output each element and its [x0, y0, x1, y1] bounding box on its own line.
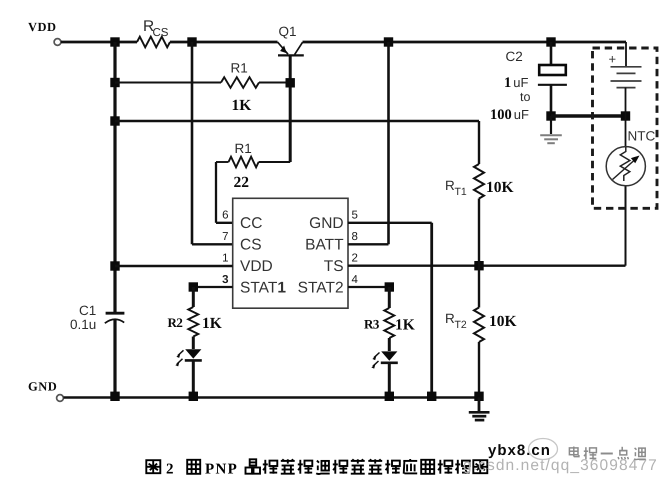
- svg-text:1: 1: [222, 253, 228, 265]
- svg-text:R: R: [445, 178, 455, 193]
- junction rail at C1: [110, 392, 119, 401]
- svg-text:VDD: VDD: [240, 258, 273, 275]
- junction rail at RT2: [474, 392, 483, 401]
- caption: [146, 459, 487, 478]
- svg-text:TS: TS: [324, 258, 344, 275]
- svg-text:PNP: PNP: [205, 462, 238, 478]
- svg-text:T1: T1: [455, 186, 467, 198]
- resistor RT2: [474, 308, 484, 343]
- svg-text:5: 5: [352, 210, 358, 222]
- svg-text:10K: 10K: [486, 179, 514, 196]
- junction TS at RT divider: [474, 261, 483, 270]
- junction C2 to battery link: [546, 111, 555, 120]
- junction on VDD rail at C2: [546, 37, 555, 46]
- svg-text:CS: CS: [240, 237, 262, 254]
- junction RT1 feed tap: [110, 116, 119, 125]
- wire LED2 to ground rail: [388, 363, 391, 398]
- junction STAT1 elbow: [189, 282, 198, 291]
- wire C2 bottom: [550, 85, 553, 116]
- svg-text:8: 8: [352, 231, 358, 243]
- svg-text:g.csdn.net/qq_36098477: g.csdn.net/qq_36098477: [463, 457, 658, 474]
- svg-text:ybx8.cn: ybx8.cn: [488, 442, 551, 459]
- svg-text:4: 4: [352, 274, 359, 286]
- svg-text:+: +: [609, 52, 617, 67]
- wire R2 to LED1: [192, 337, 195, 350]
- svg-text:Q1: Q1: [279, 24, 297, 39]
- junction battery minus: [621, 111, 630, 120]
- wire TS pin 2: [348, 265, 626, 267]
- svg-text:0.1u: 0.1u: [70, 317, 96, 332]
- resistor R1 (1K): [221, 77, 259, 88]
- wire VDD to RT1 top: [115, 120, 479, 123]
- wire LED1 to ground rail: [192, 360, 195, 397]
- svg-text:R2: R2: [168, 315, 183, 330]
- svg-text:STAT1: STAT1: [240, 280, 286, 297]
- wire BATT pin 8: [348, 243, 389, 245]
- svg-text:GND: GND: [309, 215, 343, 232]
- resistor RCS: [137, 37, 170, 48]
- wire BATT riser to VDD rail: [387, 42, 390, 244]
- wire CS vertical: [191, 42, 194, 244]
- wire Q1 collector to battery: [303, 41, 627, 44]
- svg-text:R1: R1: [235, 141, 252, 156]
- svg-text:2: 2: [352, 253, 358, 265]
- wire CC pin 6: [216, 222, 233, 224]
- wire STAT2 to R3: [388, 287, 391, 308]
- ground symbol main: [469, 398, 490, 421]
- wire RT1 bottom: [478, 199, 480, 266]
- junction STAT2 elbow: [385, 282, 394, 291]
- svg-text:NTC: NTC: [628, 129, 656, 144]
- wire C2 to battery minus: [551, 114, 626, 117]
- wire battery to NTC: [625, 116, 627, 147]
- watermark: [463, 439, 658, 475]
- wire CC corner to R1 22: [216, 161, 229, 163]
- op-amp U1 charge controller box: [233, 198, 348, 308]
- wire CS pin 7: [192, 243, 233, 245]
- junction R1 1K at base lead: [286, 78, 295, 87]
- svg-text:VDD: VDD: [28, 20, 57, 34]
- svg-text:CC: CC: [240, 215, 262, 232]
- GND terminal: [57, 395, 64, 402]
- svg-text:R: R: [445, 311, 455, 326]
- wire ground rail: [64, 396, 480, 398]
- wire battery plus lead: [625, 42, 627, 67]
- wire R1 22 right to base lead: [259, 161, 291, 163]
- junction base-resistor tap: [110, 78, 119, 87]
- svg-text:BATT: BATT: [305, 237, 344, 254]
- svg-text:STAT2: STAT2: [298, 280, 344, 297]
- svg-text:10K: 10K: [489, 313, 517, 330]
- resistor R2: [188, 307, 198, 337]
- wire to R1 1K: [115, 82, 221, 84]
- svg-text:1K: 1K: [395, 317, 415, 334]
- svg-text:100uF: 100uF: [490, 107, 529, 123]
- wire R3 to LED2: [388, 338, 391, 351]
- battery pack enclosure (dashed): [593, 48, 658, 208]
- thermistor NTC: [606, 147, 645, 186]
- junction VDD pin tap: [110, 261, 119, 270]
- svg-text:C2: C2: [506, 49, 523, 64]
- capacitor C2: [538, 65, 567, 85]
- junction rail at GND pin drop: [427, 392, 436, 401]
- wire Q1 base lead down: [289, 55, 292, 162]
- resistor R3: [384, 308, 394, 338]
- svg-text:C1: C1: [79, 303, 96, 318]
- resistor RT1: [474, 164, 484, 199]
- svg-text:6: 6: [222, 210, 228, 222]
- svg-text:1K: 1K: [232, 97, 252, 114]
- capacitor C1: [105, 313, 125, 323]
- battery BT1: [611, 67, 642, 88]
- resistor R1 (22): [229, 157, 259, 168]
- wire STAT2 pin 4: [348, 286, 389, 288]
- svg-text:CS: CS: [153, 27, 169, 39]
- junction on VDD rail at CS vertical: [187, 37, 196, 46]
- wire C1 to ground rail: [113, 320, 116, 398]
- VDD terminal: [54, 39, 61, 46]
- wire RCS to Q1 emitter: [170, 41, 278, 44]
- junction on VDD rail at left vertical: [110, 37, 119, 46]
- LED D1: [175, 349, 201, 366]
- svg-text:1uF: 1uF: [504, 75, 528, 91]
- wire RT1 top: [478, 121, 480, 164]
- wire STAT1 pin 3: [193, 286, 232, 288]
- wire NTC drop to TS: [625, 186, 627, 266]
- svg-text:22: 22: [234, 174, 250, 191]
- svg-text:1K: 1K: [202, 315, 222, 332]
- wire GND pin drop to rail: [430, 223, 433, 398]
- wire RT2 top: [478, 266, 480, 308]
- wire STAT1 to R2: [192, 287, 195, 307]
- svg-text:T2: T2: [455, 319, 467, 331]
- wire C2 top: [550, 42, 553, 64]
- wire R1 1K to Q1 base: [259, 82, 290, 84]
- wire GND pin 5: [348, 222, 432, 224]
- svg-text:R3: R3: [364, 317, 380, 332]
- wire VDD pin 1: [115, 265, 233, 267]
- LED D2: [371, 351, 397, 368]
- svg-text:R1: R1: [231, 61, 248, 76]
- wire battery minus lead: [625, 88, 627, 116]
- wire VDD rail left segment: [61, 41, 137, 44]
- svg-text:2: 2: [166, 462, 174, 478]
- svg-text:7: 7: [222, 231, 228, 243]
- svg-text:3: 3: [222, 274, 228, 286]
- junction rail at LED1: [189, 392, 198, 401]
- junction rail at LED2: [385, 392, 394, 401]
- svg-text:GND: GND: [28, 380, 57, 394]
- wire RT2 bottom: [478, 342, 480, 398]
- wire CC drop: [215, 162, 217, 223]
- wire left VDD vertical: [113, 42, 116, 313]
- junction on VDD rail at collector drop: [384, 37, 393, 46]
- ground symbol at C2: [540, 116, 562, 143]
- transistor Q1: [278, 42, 304, 55]
- svg-text:to: to: [520, 90, 530, 104]
